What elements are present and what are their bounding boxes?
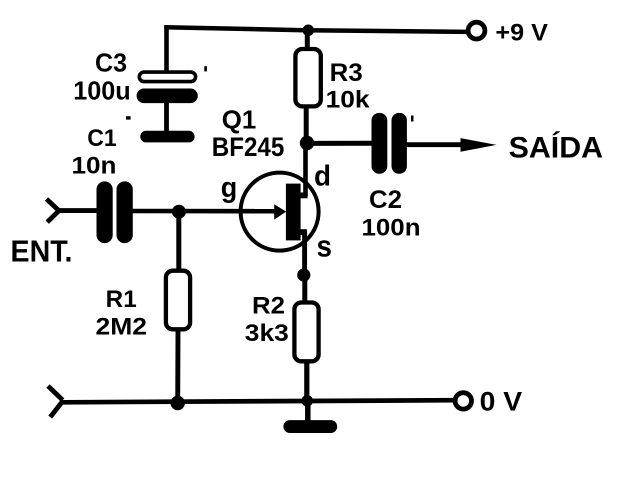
label 0 V <box>480 387 522 417</box>
svg-text:100u: 100u <box>73 76 131 106</box>
wire: input to C1 <box>58 208 98 213</box>
svg-text:10k: 10k <box>326 87 371 114</box>
wire: R1 to bottom rail <box>175 330 180 404</box>
label R2 3k3 <box>245 293 289 348</box>
terminal input chevron ENT. <box>47 199 59 222</box>
wire: drain node down to Q1 drain <box>303 142 308 196</box>
transistor Q1 (JFET BF245) <box>241 173 319 251</box>
label R1 2M2 <box>96 286 148 340</box>
node: source junction <box>297 268 310 281</box>
label pin s <box>317 228 333 263</box>
svg-text:R3: R3 <box>330 59 363 87</box>
node: bottom rail / R1 <box>171 396 185 410</box>
terminal +9V <box>468 22 485 39</box>
svg-text:10n: 10n <box>72 153 117 180</box>
wire: output with arrow to SAIDA <box>404 138 497 152</box>
wire: R3 to drain node <box>304 106 309 147</box>
svg-text:s: s <box>317 228 333 263</box>
wire: source node to R2 <box>302 273 307 303</box>
svg-text:C3: C3 <box>95 48 127 78</box>
label R3 10k <box>326 59 371 114</box>
terminal chevron bottom-left <box>48 386 63 417</box>
label +9 V <box>495 20 548 47</box>
svg-text:R2: R2 <box>252 293 285 320</box>
wire: 0V bottom rail <box>62 400 457 402</box>
svg-text:C2: C2 <box>369 186 402 214</box>
svg-text:3k3: 3k3 <box>245 320 289 347</box>
wire: Q1 source to source node <box>302 230 307 277</box>
wire: C3 to ground bar <box>164 100 169 133</box>
svg-text:BF245: BF245 <box>212 132 284 162</box>
svg-text:0 V: 0 V <box>480 387 522 417</box>
svg-text:R1: R1 <box>106 286 137 313</box>
node: bottom rail / R2 / ground <box>301 395 313 407</box>
wire: C1 to gate <box>130 209 277 214</box>
node: gate / R1 junction <box>172 205 186 219</box>
capacitor C3 (electrolytic) <box>126 66 207 119</box>
wire: R2 to bottom rail <box>304 361 309 403</box>
label C2 100n <box>362 186 421 242</box>
resistor R1 <box>166 271 190 330</box>
node: junction top rail / R3 <box>303 25 315 37</box>
svg-text:+9 V: +9 V <box>495 20 548 47</box>
label Q1 BF245 <box>212 105 284 163</box>
label ENT. <box>11 233 73 268</box>
capacitor C1 <box>97 181 133 243</box>
terminal 0V <box>455 393 471 409</box>
label C1 10n <box>72 125 117 180</box>
wire: top-left vertical drop to C3 <box>164 25 169 73</box>
ground (below C3) <box>140 131 194 143</box>
svg-text:SAÍDA: SAÍDA <box>509 130 603 164</box>
label pin d <box>314 160 331 192</box>
wire: rail to ground bar <box>305 401 311 421</box>
wire: drain node to C2 <box>305 141 373 146</box>
svg-text:100n: 100n <box>362 215 421 242</box>
resistor R2 <box>294 303 318 362</box>
label pin g <box>221 172 238 204</box>
svg-text:C1: C1 <box>87 125 117 152</box>
node: drain junction <box>300 136 314 150</box>
label SAÍDA <box>509 130 603 164</box>
svg-text:2M2: 2M2 <box>96 313 148 340</box>
capacitor C2 <box>372 113 414 174</box>
svg-text:d: d <box>314 160 331 192</box>
svg-text:g: g <box>221 172 238 204</box>
svg-text:Q1: Q1 <box>222 105 256 135</box>
svg-text:ENT.: ENT. <box>11 233 73 268</box>
wire: top rail to R3 <box>305 28 310 51</box>
wire: gate node down to R1 <box>176 209 181 271</box>
wire: +9V top rail <box>164 27 468 32</box>
resistor R3 <box>295 49 320 106</box>
label C3 100u <box>73 48 131 106</box>
ground (main) <box>283 420 337 433</box>
